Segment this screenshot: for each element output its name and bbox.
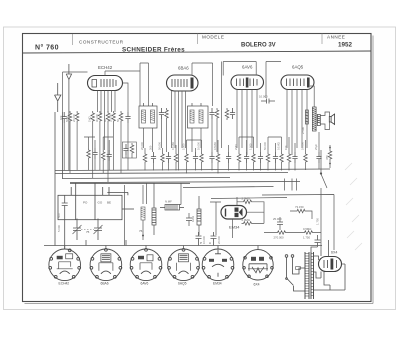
- svg-text:5.000: 5.000: [57, 225, 61, 232]
- socket 6X4: [243, 250, 274, 280]
- tiny labels row1: [59, 114, 120, 122]
- fuse: [296, 267, 301, 270]
- speaker wiring loop: [320, 112, 329, 130]
- tube V1 ECH42: [88, 76, 123, 91]
- outer frame: [23, 34, 372, 302]
- svg-text:6AV6: 6AV6: [141, 281, 149, 285]
- socket 6AV6: [130, 248, 162, 280]
- svg-text:25.000: 25.000: [273, 217, 282, 221]
- wire grid top: [63, 62, 315, 171]
- svg-text:6AQ5: 6AQ5: [178, 281, 187, 285]
- small cap near ladder: [186, 213, 192, 226]
- svg-text:BE: BE: [107, 201, 111, 205]
- bus 4: [70, 182, 300, 183]
- svg-text:1952: 1952: [338, 42, 353, 49]
- output transformer secondary: [317, 115, 320, 126]
- svg-text:N.MF: N.MF: [165, 200, 172, 204]
- svg-text:5.000: 5.000: [182, 143, 186, 150]
- wire comb below component rows: [64, 119, 319, 183]
- resistor left of transformer: [306, 110, 309, 124]
- antenna coil ladder: [152, 183, 156, 235]
- antenna arrow 1: [55, 83, 61, 112]
- tuning coil ladder right: [197, 196, 201, 235]
- bus 3: [62, 178, 230, 179]
- svg-text:20.000: 20.000: [140, 142, 144, 150]
- svg-text:ECH42: ECH42: [59, 281, 70, 285]
- gang dashed link: [81, 229, 94, 231]
- resistor 1.750 h: [303, 231, 315, 235]
- svg-text:1.750: 1.750: [316, 218, 320, 225]
- bus 2: [55, 173, 288, 174]
- caps at bottom mid: [196, 232, 217, 246]
- svg-text:6AV6: 6AV6: [242, 65, 253, 70]
- faint print-through artifacts right side: [345, 163, 362, 250]
- svg-text:6X4: 6X4: [254, 283, 260, 287]
- svg-text:P: P: [200, 241, 202, 245]
- svg-text:73.150: 73.150: [295, 205, 304, 209]
- cap left of band box: [62, 195, 68, 249]
- svg-text:500: 500: [57, 213, 61, 218]
- svg-text:470: 470: [325, 155, 329, 160]
- bus 5: [183, 187, 274, 188]
- bus 1: [55, 169, 330, 171]
- power transformer: [305, 252, 314, 299]
- header separator: [23, 51, 372, 53]
- svg-text:EM34: EM34: [213, 281, 222, 285]
- svg-text:0.5MΩ: 0.5MΩ: [303, 227, 311, 231]
- power switch: [286, 268, 305, 291]
- svg-text:SCHNEIDER Frères: SCHNEIDER Frères: [122, 47, 185, 54]
- power wires: [314, 235, 346, 290]
- svg-text:0.5MΩ: 0.5MΩ: [213, 142, 217, 150]
- svg-text:2MΩ: 2MΩ: [234, 144, 238, 150]
- svg-text:0.1MΩ: 0.1MΩ: [277, 142, 281, 150]
- svg-text:20.000: 20.000: [72, 114, 76, 122]
- svg-text:20.000: 20.000: [217, 236, 221, 244]
- socket ECH42: [49, 249, 81, 281]
- svg-text:GO: GO: [98, 201, 103, 205]
- svg-text:300: 300: [149, 145, 153, 150]
- svg-text:6BA6: 6BA6: [178, 66, 189, 71]
- svg-text:ANNEE: ANNEE: [327, 35, 345, 40]
- socket EM34: [202, 249, 234, 281]
- svg-text:2.0MΩ: 2.0MΩ: [242, 197, 250, 201]
- svg-text:100: 100: [284, 145, 288, 150]
- cathode resistor near output: [328, 149, 332, 161]
- svg-text:270.000: 270.000: [274, 236, 285, 240]
- svg-text:75: 75: [86, 230, 90, 234]
- svg-text:10.000: 10.000: [197, 142, 201, 150]
- svg-text:2.500: 2.500: [301, 127, 305, 134]
- svg-text:CONSTRUCTEUR: CONSTRUCTEUR: [79, 40, 124, 45]
- svg-text:BOLERO 3V: BOLERO 3V: [241, 43, 276, 49]
- tiny labels row2: [140, 142, 318, 150]
- svg-text:1MΩ: 1MΩ: [88, 116, 92, 122]
- svg-text:1.750: 1.750: [303, 236, 310, 240]
- svg-text:0.1MΩ: 0.1MΩ: [171, 142, 175, 150]
- svg-text:PO: PO: [83, 201, 88, 205]
- switch diagonal: [321, 174, 327, 188]
- mains plug: [285, 255, 294, 271]
- resistor 270.000 h: [276, 231, 288, 235]
- caps beside MF2: [209, 108, 214, 119]
- tube V2 6BA6: [167, 75, 199, 91]
- output transformer primary: [313, 107, 317, 131]
- svg-text:EM34: EM34: [229, 225, 240, 230]
- socket 6AQ5: [168, 248, 200, 280]
- cap 25.000: [277, 217, 283, 230]
- svg-text:A: A: [209, 241, 211, 245]
- IF cap beside MF1: [159, 108, 164, 119]
- svg-text:6AQ5: 6AQ5: [292, 65, 304, 70]
- IF transformer MF1: [139, 103, 157, 128]
- cap near transformer top: [311, 240, 321, 252]
- svg-text:1MΩ: 1MΩ: [191, 216, 195, 222]
- svg-text:6X4: 6X4: [331, 251, 337, 255]
- svg-text:50.000: 50.000: [263, 142, 267, 150]
- tube V4 6AQ5: [281, 75, 314, 90]
- rectifier tube 6X4: [319, 257, 342, 272]
- svg-text:6BA6: 6BA6: [101, 281, 109, 285]
- svg-text:1.000: 1.000: [249, 143, 253, 150]
- left rail: [54, 112, 56, 246]
- svg-text:10.000: 10.000: [301, 142, 305, 150]
- svg-text:N° 760: N° 760: [35, 44, 59, 52]
- svg-text:25.000: 25.000: [109, 114, 113, 122]
- header divider ticks: [73, 34, 323, 45]
- svg-text:25μF: 25μF: [314, 144, 318, 150]
- svg-text:10.000: 10.000: [259, 95, 268, 99]
- horizontal resistor 73.150: [295, 209, 307, 213]
- svg-text:MODELE: MODELE: [202, 35, 224, 40]
- trimmer capacitor 1: [73, 219, 82, 241]
- svg-text:10.000: 10.000: [202, 236, 206, 244]
- coupling capacitor between V3 V4: [261, 99, 275, 104]
- svg-text:76: 76: [139, 229, 143, 233]
- svg-text:50pF: 50pF: [65, 116, 69, 122]
- tube V3 6AV6: [231, 75, 264, 90]
- svg-text:50.000: 50.000: [158, 142, 162, 150]
- socket 6BA6: [90, 248, 122, 280]
- antenna arrow 2: [66, 64, 71, 112]
- left coil element: [141, 207, 145, 220]
- speaker: [329, 114, 334, 125]
- frame double line right/bottom: [25, 36, 374, 304]
- svg-text:30.000: 30.000: [95, 114, 99, 122]
- svg-text:ECH42: ECH42: [98, 65, 113, 70]
- trimmer capacitor 2: [94, 219, 103, 241]
- IF transformer MF2: [188, 103, 209, 128]
- resistors around EM34: [210, 197, 264, 238]
- svg-text:2.0MΩ: 2.0MΩ: [242, 218, 250, 222]
